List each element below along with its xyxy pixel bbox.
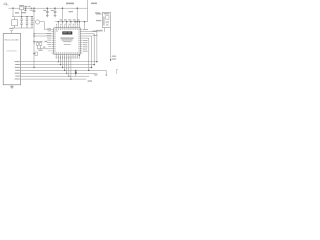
wire U1 bottom drop 7 xyxy=(70,57,72,80)
Y1 inner text xyxy=(103,17,104,26)
capacitor C1 plates xyxy=(33,8,36,11)
small part X2 xyxy=(35,52,38,55)
U1 pin numbers bottom xyxy=(56,52,80,54)
label L1 xyxy=(24,6,27,7)
node Jb5 xyxy=(66,73,67,74)
wire top net xyxy=(55,21,87,23)
node J3 xyxy=(33,8,34,9)
wire rail feed left xyxy=(12,8,14,16)
wire sub rail xyxy=(12,16,33,18)
node bus2 end xyxy=(94,64,95,65)
node J8 xyxy=(58,21,59,22)
wire U1 bottom drop 2 xyxy=(59,57,61,65)
node J15 xyxy=(33,53,34,54)
bus wire 4 xyxy=(21,70,107,74)
U1 part number block xyxy=(62,31,72,34)
label under Y1 xyxy=(96,30,103,32)
net labels above top line xyxy=(60,19,80,20)
U1 name line 2 xyxy=(61,39,72,42)
capacitor C5 xyxy=(26,23,29,28)
regulator U3 box xyxy=(12,20,18,26)
bus wire 6 xyxy=(21,75,90,77)
wire U1 bottom drop 3 xyxy=(62,57,64,68)
label cluster a xyxy=(15,12,19,13)
diode D2 xyxy=(75,70,77,76)
resistor R1 on rail xyxy=(20,7,24,10)
wire U1 bottom drop 5 xyxy=(66,57,68,74)
U1 top pins xyxy=(56,26,79,28)
node J10 xyxy=(47,8,48,9)
wire Y1 down xyxy=(110,28,112,60)
wire vertical right of rail xyxy=(87,0,89,22)
node J2 xyxy=(25,8,26,9)
node Jc1 xyxy=(21,16,22,17)
wire stub pin bottom right xyxy=(78,54,80,59)
U1 pin numbers right xyxy=(78,29,80,53)
U1 left pins xyxy=(52,30,54,53)
node Jt6 xyxy=(79,21,80,22)
labels above U1 pins xyxy=(56,24,78,25)
U1 part number text b xyxy=(68,31,71,34)
U1 pin numbers left xyxy=(54,29,56,53)
ground rail of cap bank xyxy=(12,27,33,29)
node Jt3 xyxy=(66,21,67,22)
bus wire 1 xyxy=(21,61,97,63)
tick right edge xyxy=(116,70,118,74)
label C1 xyxy=(30,10,33,11)
wire U3 bottom xyxy=(14,26,16,28)
power flag VIN xyxy=(3,3,8,6)
U2 pin labels xyxy=(15,61,20,79)
label on wire xyxy=(38,50,42,51)
wire from R1 down xyxy=(21,10,23,17)
node bus1 end xyxy=(96,61,97,62)
wire top drops to U1 pins xyxy=(58,22,79,26)
wire right bend row4 xyxy=(82,36,91,68)
node Jb6 xyxy=(68,76,69,77)
wire X2 xyxy=(34,53,35,55)
node Jb4 xyxy=(64,70,65,71)
label C7 xyxy=(51,10,54,11)
svg-text:Microcontroller: Microcontroller xyxy=(5,38,20,41)
wire R2 bottom xyxy=(37,45,51,48)
resistor R2 xyxy=(36,42,38,45)
pushbutton SW1 xyxy=(36,20,40,24)
label left of Y1 a xyxy=(96,13,101,14)
wire R2 top xyxy=(36,41,38,42)
wire R3 top xyxy=(40,41,42,42)
wire U1 bottom drop 1 xyxy=(57,57,59,62)
wire rail drop 2 xyxy=(76,8,78,26)
label under J2 xyxy=(25,10,27,11)
node J12 xyxy=(33,33,34,34)
node J6 xyxy=(77,8,78,9)
U1 name line 3 xyxy=(63,40,72,43)
capacitor C9 xyxy=(31,23,34,28)
svg-text:(host MCU): (host MCU) xyxy=(7,49,17,52)
label near drop xyxy=(69,11,74,12)
node J17 xyxy=(110,59,111,60)
U1 right pins xyxy=(80,30,82,53)
node J16 end of long vertical xyxy=(33,67,34,68)
node Jb1 xyxy=(58,61,59,62)
ground C7 xyxy=(54,15,57,17)
wire top power rail xyxy=(9,7,88,9)
U1 right pin labels xyxy=(83,29,88,52)
U1 part number text xyxy=(63,31,67,34)
label L1b xyxy=(28,6,30,7)
label above U2 xyxy=(9,28,14,29)
U2 vcc stub xyxy=(10,31,13,34)
net label VDD33 xyxy=(66,3,74,5)
wire long vertical from C1 xyxy=(33,12,35,68)
bus wire 7 xyxy=(21,78,87,80)
bus wire 3 xyxy=(21,67,92,69)
node J5 xyxy=(62,8,63,9)
capacitor C7 xyxy=(54,8,57,15)
U2 ground xyxy=(10,85,14,88)
node Jt5 xyxy=(74,21,75,22)
wire rail drop 1 xyxy=(62,8,64,22)
crystal box Y1 xyxy=(102,12,110,27)
U1 left pin labels xyxy=(47,28,51,51)
label R1 value xyxy=(19,5,24,6)
wire stub J2 xyxy=(25,8,27,10)
wire R3 bottom xyxy=(40,45,42,48)
capacitor C6 xyxy=(46,8,49,15)
node Jb3 xyxy=(62,67,63,68)
node J4 xyxy=(62,21,63,22)
wire U3 top xyxy=(14,17,16,20)
label under R2 xyxy=(43,47,45,48)
U1 name line 1 xyxy=(60,38,73,39)
node Jb2 xyxy=(60,64,61,65)
capacitor C2 xyxy=(20,17,23,23)
node Jc3 xyxy=(31,16,32,17)
Y1 title xyxy=(104,13,110,14)
node J18 xyxy=(84,21,85,22)
wire to U1 right pin1 xyxy=(84,22,86,30)
node Jb8 xyxy=(79,55,80,56)
node Jb7 xyxy=(70,79,71,80)
node J14 xyxy=(33,41,34,42)
labels near right bends xyxy=(93,31,99,32)
U1 pin1 marker xyxy=(56,30,58,32)
wires to MCU left row4 xyxy=(34,35,52,37)
Y1 inner element 2 xyxy=(106,22,109,26)
wire Y1 stub down xyxy=(103,28,105,32)
label at J17 b xyxy=(112,58,116,59)
capacitor C3 xyxy=(20,23,23,28)
ground C6 xyxy=(46,15,49,17)
node J7 xyxy=(77,21,78,22)
node bus4 join xyxy=(88,70,89,71)
connector arrow on bus 4 xyxy=(105,75,107,77)
wire cluster top xyxy=(34,40,43,42)
label at J17 xyxy=(112,56,116,57)
capacitor C4 xyxy=(26,17,29,23)
U1 bottom pin labels xyxy=(56,56,78,58)
net label 3V3 xyxy=(91,3,97,5)
node J1 xyxy=(12,8,13,9)
wire U1 bottom drop 6 xyxy=(68,57,70,77)
capacitor C8 xyxy=(31,17,34,23)
label cluster b xyxy=(21,12,26,13)
wire right bend row5 xyxy=(82,38,88,70)
wire right bend row2 xyxy=(82,32,97,62)
node Jc2 xyxy=(26,16,27,17)
microcontroller U2 xyxy=(3,33,20,84)
node J14b xyxy=(34,42,35,43)
wire from SW1 to top net xyxy=(40,22,52,30)
resistor R3 xyxy=(39,42,41,45)
label bends b xyxy=(93,35,98,36)
U1 bottom pins xyxy=(56,54,79,56)
node JD2 xyxy=(75,70,76,71)
MCU U1 xyxy=(54,28,80,54)
node J2b xyxy=(31,8,32,9)
U1 pin numbers top xyxy=(56,28,80,30)
wires to MCU left row3 xyxy=(34,33,52,35)
node J13 xyxy=(33,35,34,36)
wire U1 bottom drop 4 xyxy=(64,57,66,71)
Y1 inner element 1 xyxy=(106,16,109,20)
label bus5 end xyxy=(94,74,97,75)
label C6 xyxy=(43,10,46,11)
node bus3 end xyxy=(91,67,92,68)
label near R3 xyxy=(44,41,47,42)
label left of Y1 b xyxy=(96,20,101,21)
diode D2 body xyxy=(75,72,77,74)
node J11 xyxy=(54,8,55,9)
U1 name line 4 xyxy=(64,43,71,46)
bus wire 2 xyxy=(21,64,95,66)
wire right bend row3 xyxy=(82,34,94,65)
node J9 xyxy=(70,21,71,22)
bus wire 5 xyxy=(21,72,98,74)
label bottom right xyxy=(88,80,92,81)
label right mid xyxy=(95,12,100,13)
